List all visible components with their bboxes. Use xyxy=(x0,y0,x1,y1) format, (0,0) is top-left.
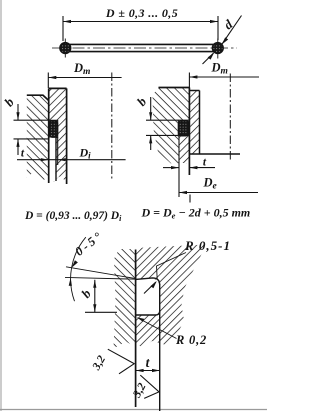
svg-text:D ± 0,3 ... 0,5: D ± 0,3 ... 0,5 xyxy=(105,6,178,20)
arc arrowhead upper xyxy=(72,260,78,267)
groove outline right view xyxy=(178,120,189,136)
svg-text:De: De xyxy=(203,176,218,192)
t arrow left xyxy=(171,166,179,169)
b arrow top right view xyxy=(149,112,152,120)
Di arrow xyxy=(58,158,66,161)
ring centerline xyxy=(52,47,237,49)
Dm arrow xyxy=(189,75,197,78)
d lower arrowhead xyxy=(208,52,215,59)
groove outline xyxy=(49,120,58,137)
housing block with groove (hatched) xyxy=(153,88,190,164)
groove top wall xyxy=(136,278,160,285)
joint line lower tick xyxy=(189,195,191,203)
rod strip right edge xyxy=(66,88,68,184)
cylinder block (left, hatched) xyxy=(27,95,49,181)
plug strip (hatched) xyxy=(189,91,199,155)
plug right edge xyxy=(199,91,201,155)
face line of part xyxy=(135,250,137,408)
b dimension right view xyxy=(146,97,179,150)
plug bottom edge line xyxy=(189,153,240,155)
R 0,5-1 inner arrow xyxy=(144,282,156,294)
rod strip top edge xyxy=(49,87,67,89)
svg-text:t: t xyxy=(146,355,151,370)
right section circle xyxy=(212,43,223,54)
scan edge bottom xyxy=(0,409,267,411)
groove bottom line + extension xyxy=(159,284,161,411)
groove bottom wall xyxy=(136,311,160,315)
ring bar bottom line xyxy=(69,51,214,53)
arrow right of D dim xyxy=(210,20,218,23)
Dm extension line xyxy=(188,73,190,89)
column below groove xyxy=(179,136,190,163)
centerline axis right xyxy=(229,74,231,162)
left section circle xyxy=(60,43,71,54)
Dm extension line xyxy=(47,73,49,89)
svg-text:t: t xyxy=(21,148,25,160)
b dimension lines xyxy=(14,104,50,155)
arrow left of D dim xyxy=(63,20,71,23)
t arrow xyxy=(41,158,49,161)
b dimension detail xyxy=(94,280,96,313)
groove bottom extension line xyxy=(57,138,59,166)
d leader line upper xyxy=(222,16,241,44)
De arrow xyxy=(179,191,187,194)
b arrow top xyxy=(16,112,19,120)
Dm dimension line xyxy=(48,77,121,79)
groove part (right, hatched) xyxy=(136,245,207,348)
b lower extension line xyxy=(85,311,117,313)
gap below groove xyxy=(49,138,55,182)
left circle vertical centerline xyxy=(64,39,66,58)
Dm arrow xyxy=(48,76,56,79)
svg-text:0-5°: 0-5° xyxy=(72,228,106,259)
De dimension line xyxy=(179,192,258,194)
joint face line right view xyxy=(188,88,190,176)
angle sloped line xyxy=(66,267,136,279)
dimension D line xyxy=(63,16,218,41)
groove window right view xyxy=(178,120,190,136)
d leader line lower xyxy=(203,53,214,64)
housing top edge xyxy=(159,87,190,89)
t dimension right view xyxy=(163,167,179,169)
svg-text:d: d xyxy=(221,16,236,32)
mating part (left, hatched) xyxy=(114,249,136,349)
Dm dimension line xyxy=(189,76,259,78)
R 0,2 arrowhead xyxy=(137,317,145,322)
svg-text:R 0,2: R 0,2 xyxy=(175,333,207,347)
groove window detail xyxy=(135,278,160,315)
rod strip (right, hatched) xyxy=(49,88,67,182)
t dimension detail xyxy=(136,370,160,372)
right circle vertical centerline xyxy=(217,39,219,59)
svg-text:t: t xyxy=(203,157,207,169)
R 0,2 leader xyxy=(138,318,177,339)
svg-text:Dm: Dm xyxy=(211,61,228,77)
svg-text:Dm: Dm xyxy=(73,61,90,77)
t arrows detail xyxy=(136,369,144,372)
d leader arrowhead at circle xyxy=(222,37,229,44)
svg-text:b: b xyxy=(1,94,17,109)
ring bar top line xyxy=(69,43,214,45)
roughness mark side face xyxy=(108,349,134,374)
angle reference line xyxy=(65,277,136,279)
svg-text:D = De − 2d + 0,5 mm: D = De − 2d + 0,5 mm xyxy=(141,206,251,221)
O-ring section right xyxy=(179,121,189,136)
svg-text:R 0,5-1: R 0,5-1 xyxy=(184,238,231,253)
svg-text:b: b xyxy=(78,286,94,301)
groove bottom extension line xyxy=(178,136,180,197)
svg-text:3,2: 3,2 xyxy=(90,354,108,374)
b arrow bottom right view xyxy=(149,135,152,143)
t / Di dimension line xyxy=(17,159,126,161)
R 0,5-1 leader xyxy=(157,253,187,280)
t arrow right xyxy=(189,166,197,169)
cylinder block top edge xyxy=(27,95,49,100)
angle arc xyxy=(71,237,86,301)
rod lower face line xyxy=(55,138,57,182)
b arrows detail xyxy=(93,280,96,288)
svg-text:D = (0,93 ... 0,97) Di: D = (0,93 ... 0,97) Di xyxy=(24,210,122,223)
svg-text:b: b xyxy=(134,94,150,109)
scan edge left xyxy=(0,0,2,411)
svg-text:Di: Di xyxy=(79,146,92,161)
arc arrowhead lower xyxy=(69,278,72,286)
groove window xyxy=(48,120,58,137)
O-ring section xyxy=(49,121,57,137)
plug top edge xyxy=(189,90,199,92)
roughness mark bottom face xyxy=(140,375,159,398)
centerline axis xyxy=(111,73,113,179)
joint face line xyxy=(48,88,50,183)
b arrow bottom xyxy=(16,139,19,147)
